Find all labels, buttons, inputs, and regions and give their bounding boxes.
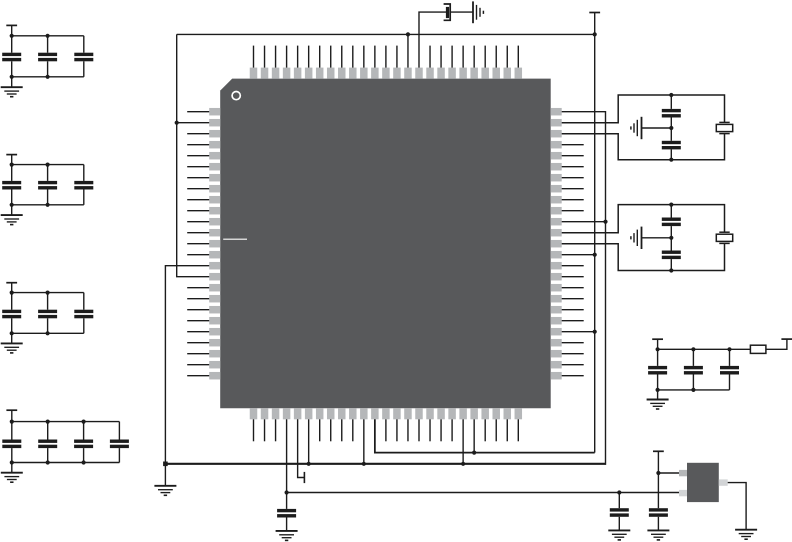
regulator U2 body	[687, 463, 719, 502]
U1 right pin stub wires	[562, 145, 584, 376]
ground of Y1	[631, 117, 642, 139]
wire U1 pin 29 (VCAP) down to C22 node	[286, 419, 288, 492]
ground of C4- bank	[1, 473, 23, 483]
junction Y2 top rail	[669, 203, 673, 207]
capacitor C4-2	[38, 422, 57, 463]
U1 left pins 1-25	[209, 108, 220, 380]
ground of C2- bank	[1, 215, 23, 225]
capacitor C4-1	[2, 422, 21, 463]
U1 right pins 51-75	[551, 108, 562, 380]
junction ground bus / pin 36	[362, 462, 366, 466]
junction C20 bottom	[691, 388, 695, 392]
U2 pin VIN (lower left)	[679, 490, 687, 496]
wire C1- bank to ground	[11, 77, 13, 87]
power flag sideways at pin 30	[303, 472, 305, 483]
U2 pin GND (right)	[719, 479, 728, 485]
U1 package marking line	[223, 238, 247, 240]
capacitor C17	[662, 205, 681, 238]
junction C21 top	[727, 347, 731, 351]
junction VCC line / pin 46	[472, 451, 476, 455]
ground of Y2	[631, 227, 642, 249]
power flag VDD at right edge	[781, 338, 792, 340]
U1 bottom pin stub wires	[254, 419, 519, 441]
junction C2-2 top	[46, 163, 50, 167]
wire U1 pin 30 to supply tap	[298, 419, 305, 477]
junction C4-3 top	[82, 420, 86, 424]
capacitor C3-2	[38, 293, 57, 334]
capacitor C3-3	[74, 293, 93, 334]
ground right of C14	[473, 1, 483, 23]
junction C4-2 top	[46, 420, 50, 424]
power flag for C4- bank	[6, 409, 17, 411]
junction C4-2 bottom	[46, 460, 50, 464]
wire bottom rail of C1- bank	[12, 76, 84, 78]
power flag for C3- bank	[6, 282, 17, 284]
capacitor C15	[662, 95, 681, 128]
wire VCC top bus	[177, 33, 595, 35]
wire U1 XTAL pin to Y2 top rail	[562, 205, 725, 233]
wire VCC left bus down to pin 16	[177, 34, 210, 276]
junction C2-2 bottom	[46, 203, 50, 207]
power flag AVCC filter left	[652, 338, 663, 340]
ground below C23	[608, 530, 630, 540]
junction C1-1 top	[10, 34, 14, 38]
wire top rail of C4- bank	[12, 421, 120, 423]
wire bottom rail of C3- bank	[12, 332, 84, 334]
junction ground bus / pin 45	[461, 462, 465, 466]
wire Y1 cap midpoint to ground	[642, 127, 672, 129]
junction C3-2 top	[46, 291, 50, 295]
wire U2 GND pin to ground	[728, 483, 746, 530]
U2 pin VOUT (upper left)	[679, 470, 687, 476]
capacitor C4-4	[110, 422, 129, 463]
junction C20 top	[691, 347, 695, 351]
junction ground bus / pin 31	[307, 462, 311, 466]
wire U1 pin 2 to VCC left bus	[177, 122, 210, 124]
crystal Y2	[716, 232, 732, 243]
capacitor C2-3	[74, 165, 93, 205]
wire ground bus right vertical	[562, 112, 606, 465]
ground of AVCC bank	[647, 400, 669, 410]
junction ground bus / pin 61	[603, 220, 607, 224]
capacitor C3-1	[2, 293, 21, 334]
U1 bottom pins 26-50	[250, 408, 522, 419]
junction regulator output	[656, 471, 660, 475]
wire U1 XTAL pin to Y2 bottom rail	[562, 243, 725, 270]
wire C14 to ground	[450, 11, 473, 13]
junction C3-2 bottom	[46, 331, 50, 335]
wire FB1 to VDD flag	[766, 339, 787, 349]
junction Y1 bottom rail	[669, 158, 673, 162]
wire U1 right pin 61 to ground bus	[562, 221, 606, 223]
U1 pin-1 indicator circle	[232, 92, 240, 100]
junction C19 bottom	[656, 388, 660, 392]
wire VCAP node to regulator	[287, 492, 679, 494]
U1 left pin stub wires	[187, 112, 209, 376]
capacitor C19	[648, 349, 667, 390]
capacitor C2-1	[2, 165, 21, 205]
power flag VCC at top right	[589, 12, 600, 14]
capacitor C1-3	[74, 36, 93, 77]
U1 top pin stub wires	[254, 46, 519, 68]
power flag for C2- bank	[6, 154, 17, 156]
wire output node down through C24 to ground	[657, 473, 659, 508]
ground at bottom left	[154, 486, 176, 496]
wire C2- bank to ground	[11, 205, 13, 215]
wire ground bus to ground symbol	[164, 464, 166, 486]
junction C23 top	[617, 490, 621, 494]
junction C4-1 top	[10, 420, 14, 424]
capacitor C18	[662, 238, 681, 271]
ferrite bead FB1	[750, 345, 766, 353]
junction Y1 top rail	[669, 93, 673, 97]
wire AVCC bank to ground	[657, 390, 659, 400]
wire bottom rail of C4- bank	[12, 462, 120, 464]
junction Y2 bottom rail	[669, 268, 673, 272]
wire right VCC bus vertical	[594, 34, 596, 452]
junction C4-3 bottom	[82, 460, 86, 464]
capacitor C1-1	[2, 36, 21, 77]
wire VCC line along bottom	[375, 419, 595, 452]
wire U1 bottom pin 31 to ground bus	[308, 419, 310, 464]
junction C2-1 top	[10, 163, 14, 167]
junction C3-1 bottom	[10, 331, 14, 335]
power flag regulator output	[653, 450, 664, 452]
wire U1 XTAL pin to Y1 top rail	[562, 95, 725, 123]
capacitor C2-2	[38, 165, 57, 205]
capacitor C14 polarized plate	[446, 7, 449, 18]
wire U1 pin 15 to ground branch	[165, 266, 209, 464]
wire AVCC filter bottom rail	[658, 389, 730, 391]
wire top rail of C2- bank	[12, 164, 84, 166]
capacitor C22	[277, 493, 296, 531]
junction C4-1 bottom	[10, 460, 14, 464]
capacitor C14 bracket plate	[444, 4, 451, 20]
wire Y2 cap midpoint to ground	[642, 237, 672, 239]
junction VCC left bus / pin 2	[175, 121, 179, 125]
capacitor C20	[684, 349, 703, 390]
junction Y2 cap midpoint	[669, 236, 673, 240]
wire C3- bank to ground	[11, 333, 13, 343]
wire ground bus along bottom	[165, 463, 605, 465]
capacitor C16	[662, 128, 681, 160]
wire U1 right pin 64 to VCC bus	[562, 254, 595, 256]
junction C19 top	[656, 347, 660, 351]
wire U1 top pin 90 to VCC bus	[407, 34, 409, 67]
capacitor C23	[610, 493, 629, 531]
junction Y1 cap midpoint	[669, 126, 673, 130]
capacitor C21	[720, 349, 739, 390]
junction VCAP node	[284, 490, 288, 494]
wire U1 top pin 91 riser to C14	[419, 12, 446, 68]
ground of C3- bank	[1, 343, 23, 353]
capacitor C4-3	[74, 422, 93, 463]
ground below U2 GND	[735, 530, 757, 540]
junction ground bus left corner	[163, 462, 168, 467]
junction C1-1 bottom	[10, 75, 14, 79]
U1 top pins 76-100	[250, 68, 522, 79]
wire regulator output node	[658, 472, 679, 474]
ground below C22	[276, 531, 298, 541]
microcontroller U1 body (QFP-100)	[220, 79, 551, 409]
wire U1 right pin 71 to VCC bus	[562, 331, 595, 333]
wire U1 bottom pin 46 to VCC line	[473, 419, 475, 452]
junction VCC bus / pin 71	[593, 330, 597, 334]
ground of C1- bank	[1, 87, 23, 97]
junction C1-2 top	[46, 34, 50, 38]
ground below C24	[647, 530, 669, 540]
wire AVCC filter top rail	[658, 348, 751, 350]
wire bottom rail of C2- bank	[12, 204, 84, 206]
junction C3-1 top	[10, 291, 14, 295]
junction VCC bus / pin 90	[406, 32, 410, 36]
wire U1 bottom pin 45 to ground bus	[462, 419, 464, 464]
junction C2-1 bottom	[10, 203, 14, 207]
capacitor C1-2	[38, 36, 57, 77]
wire top rail of C1- bank	[12, 35, 84, 37]
wire U1 bottom pin 36 to ground bus	[363, 419, 365, 464]
wire U1 XTAL pin to Y1 bottom rail	[562, 134, 725, 160]
wire top rail of C3- bank	[12, 292, 84, 294]
power flag for C1- bank	[6, 24, 17, 26]
junction top bus / right VCC bus	[593, 32, 597, 36]
junction VCC bus / pin 64	[593, 253, 597, 257]
capacitor C24	[649, 508, 668, 530]
junction C1-2 bottom	[46, 75, 50, 79]
crystal Y1	[716, 122, 732, 133]
wire C4- bank to ground	[11, 463, 13, 473]
